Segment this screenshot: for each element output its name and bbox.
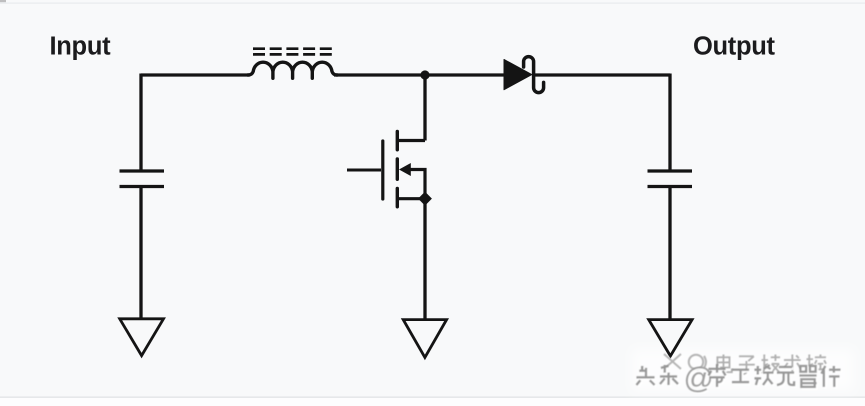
transistor Q1 gate lead wire bbox=[347, 169, 381, 172]
svg-text:Output: Output bbox=[693, 32, 776, 60]
transistor Q1 body arrow bbox=[399, 163, 411, 176]
diode D1 (Schottky) anode triangle bbox=[504, 60, 532, 90]
diode D1 Schottky cathode bar with hooks bbox=[524, 57, 544, 93]
ground symbol (output branch) bbox=[649, 320, 692, 356]
node A: inductor / MOSFET drain / diode junction bbox=[420, 70, 429, 79]
wire: MOSFET source to switch ground bbox=[423, 199, 426, 321]
transistor Q1 gate plate bbox=[381, 141, 384, 199]
wire: capacitor C1 to input ground bbox=[139, 188, 142, 321]
wire: node A down to MOSFET drain bbox=[423, 75, 426, 141]
wire: right vertical, output corner down to capacitor C2 bbox=[668, 74, 671, 170]
wire: diode cathode to output corner bbox=[535, 73, 670, 76]
svg-text:Input: Input bbox=[50, 32, 112, 60]
watermark logo (badge) bbox=[664, 354, 708, 371]
capacitor C1 (input) bottom plate bbox=[120, 185, 165, 188]
ground symbol (switch branch) bbox=[403, 320, 446, 358]
wire: left vertical, input corner down to capacitor C1 bbox=[139, 74, 142, 170]
transistor Q1 channel segments (drain / body / source) bbox=[396, 132, 399, 207]
capacitor C2 (output) bottom plate bbox=[648, 185, 693, 188]
wire: capacitor C2 to output ground bbox=[668, 188, 671, 321]
wire: inductor to node A bbox=[334, 73, 421, 76]
ground symbol (input branch) bbox=[120, 319, 164, 356]
watermark text 电子技术控 bbox=[717, 355, 827, 376]
capacitor C2 (output) top plate bbox=[648, 169, 693, 172]
transistor Q1 drain connection bbox=[397, 139, 425, 142]
inductor L1 coil bbox=[248, 62, 337, 78]
svg-text:@: @ bbox=[684, 362, 714, 395]
inductor L1 core (two dashed bars) bbox=[253, 49, 332, 55]
capacitor C1 (input) top plate bbox=[120, 169, 165, 172]
transistor Q1 body connection wire bbox=[409, 170, 425, 199]
wire: node A to diode anode bbox=[425, 73, 505, 76]
transistor Q1 source connection bbox=[397, 197, 425, 200]
watermark text 头条@李工谈元器件 bbox=[637, 362, 843, 397]
junction: MOSFET source / body tie point bbox=[418, 192, 432, 206]
wire: input corner to inductor bbox=[141, 73, 250, 76]
